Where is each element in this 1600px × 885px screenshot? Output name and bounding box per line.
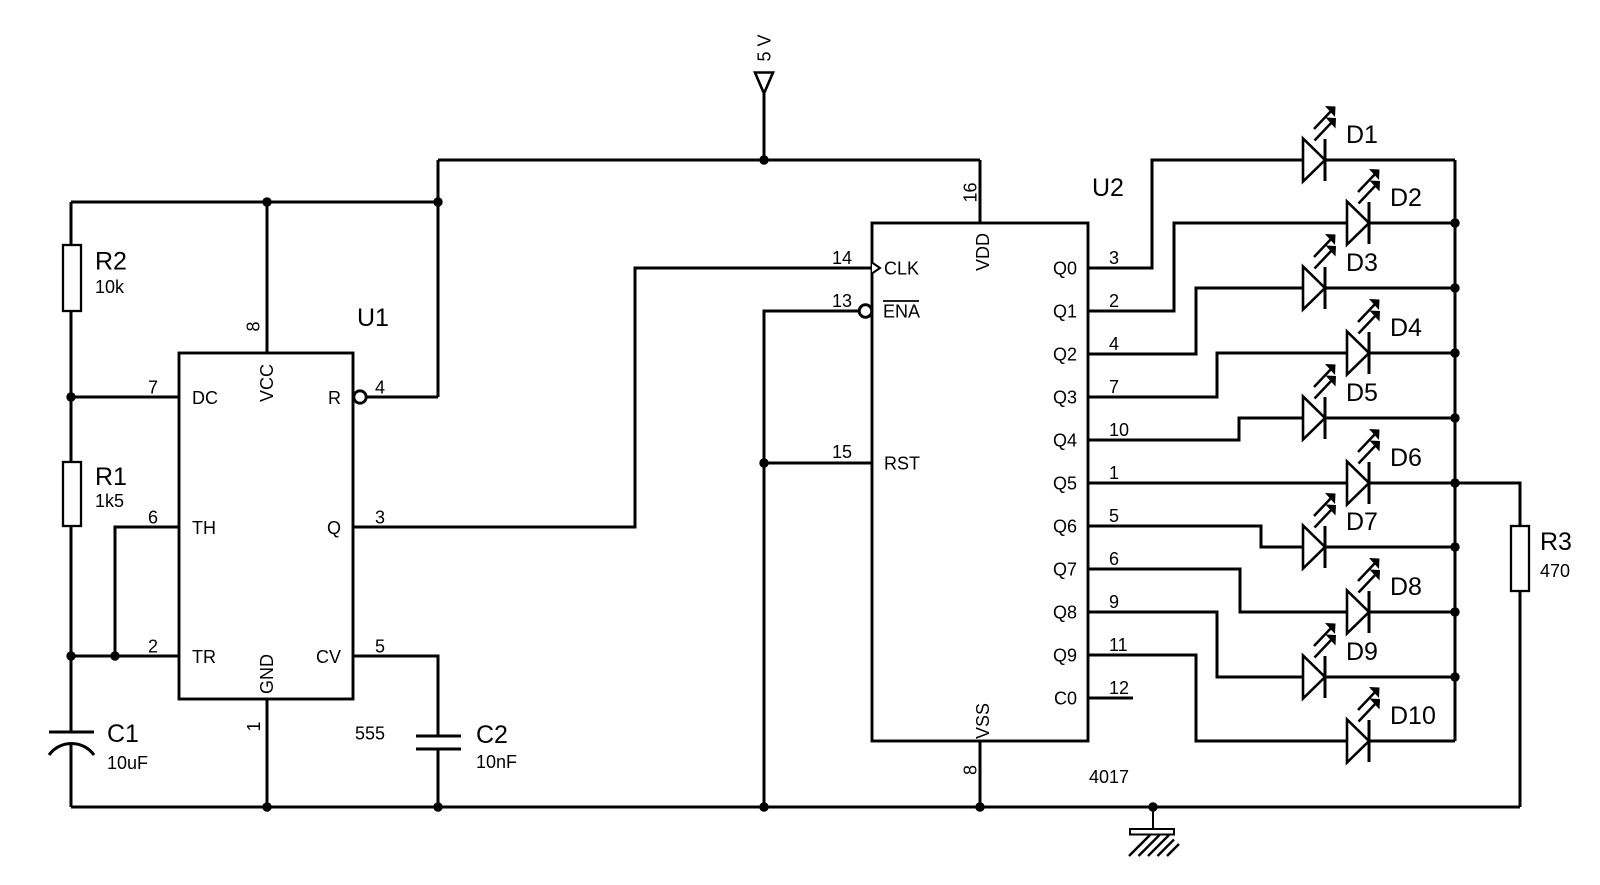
svg-text:R1: R1 — [95, 463, 127, 491]
wire R2 top lead — [70, 202, 73, 245]
wire D2 cathode to bus — [1369, 222, 1455, 225]
svg-text:13: 13 — [832, 291, 852, 311]
svg-text:D3: D3 — [1346, 249, 1378, 277]
wire D4 cathode to bus — [1369, 352, 1455, 355]
svg-text:5: 5 — [1109, 506, 1119, 526]
node earth junction — [1148, 802, 1157, 811]
svg-text:5 V: 5 V — [755, 34, 775, 61]
node VCC rail junction — [262, 197, 271, 206]
svg-text:DC: DC — [192, 388, 218, 408]
svg-text:D8: D8 — [1390, 573, 1422, 601]
wire Q8 to D9 anode — [1088, 612, 1303, 677]
svg-text:10: 10 — [1109, 420, 1129, 440]
wire U2 pin 16 VDD — [979, 160, 982, 223]
wire U1 pin 3 Q to U2 CLK — [353, 268, 872, 527]
svg-text:1: 1 — [1109, 463, 1119, 483]
svg-text:4017: 4017 — [1089, 767, 1129, 787]
svg-text:Q3: Q3 — [1053, 388, 1077, 408]
svg-text:7: 7 — [1109, 377, 1119, 397]
svg-text:3: 3 — [1109, 248, 1119, 268]
svg-text:R: R — [328, 388, 341, 408]
svg-text:2: 2 — [1109, 291, 1119, 311]
node bus D7 junction — [1450, 542, 1459, 551]
wire ground rail — [71, 806, 1520, 809]
svg-text:TR: TR — [192, 647, 216, 667]
svg-text:Q9: Q9 — [1053, 646, 1077, 666]
wire C1 to ground rail — [70, 745, 73, 807]
svg-text:D6: D6 — [1390, 444, 1422, 472]
svg-text:11: 11 — [1109, 635, 1128, 655]
svg-text:Q: Q — [327, 518, 341, 538]
node bus D9 junction — [1450, 672, 1459, 681]
svg-text:15: 15 — [832, 442, 852, 462]
svg-text:470: 470 — [1540, 561, 1570, 581]
svg-text:D10: D10 — [1390, 702, 1436, 730]
resistor R2 — [63, 245, 81, 311]
wire D8 cathode to bus — [1369, 611, 1455, 614]
node bus D2 junction — [1450, 218, 1459, 227]
svg-text:TH: TH — [192, 518, 216, 538]
wire C0 pin 12 stub — [1088, 697, 1133, 700]
node upper rail junction — [433, 197, 442, 206]
IC U1 555 timer body — [179, 353, 366, 699]
svg-text:2: 2 — [148, 637, 158, 657]
svg-text:D7: D7 — [1346, 508, 1378, 536]
LED D6 — [1347, 429, 1380, 505]
wire U1 pin 4 R — [366, 396, 438, 399]
node bus D5 junction — [1450, 413, 1459, 422]
svg-text:6: 6 — [1109, 549, 1119, 569]
node TR junction left — [66, 651, 75, 660]
LED D2 — [1347, 169, 1380, 245]
wire R2 to DC node — [70, 311, 73, 397]
node bus D6 junction — [1450, 478, 1459, 487]
svg-text:Q0: Q0 — [1053, 259, 1077, 279]
wire Q4 to D5 anode — [1088, 418, 1303, 440]
svg-text:D2: D2 — [1390, 184, 1422, 212]
wire C2 to ground rail — [437, 749, 440, 807]
wire D5 cathode to bus — [1325, 417, 1455, 420]
node VSS ground junction — [975, 802, 984, 811]
IC U2 4017 body — [859, 223, 1088, 741]
svg-text:1k5: 1k5 — [95, 491, 124, 511]
svg-text:16: 16 — [961, 182, 981, 202]
LED D5 — [1303, 364, 1336, 440]
svg-text:7: 7 — [148, 378, 158, 398]
svg-text:C1: C1 — [107, 720, 139, 748]
wire upper rail — [71, 201, 438, 204]
wire U1 pin 7 DC — [71, 396, 179, 399]
wire 5V rail — [438, 159, 980, 162]
resistor R3 — [1511, 526, 1529, 591]
wire rail to U1 pin 4 — [437, 160, 440, 397]
svg-text:8: 8 — [961, 765, 981, 775]
capacitor C1 polarized — [49, 732, 94, 755]
capacitor C2 — [416, 736, 461, 749]
svg-text:CV: CV — [316, 647, 341, 667]
node bus D8 junction — [1450, 607, 1459, 616]
svg-text:GND: GND — [257, 654, 277, 694]
node C2 ground junction — [433, 802, 442, 811]
wire D6 row to R3 — [1455, 483, 1520, 526]
resistor R1 — [63, 462, 81, 526]
wire D6 cathode to bus — [1369, 482, 1455, 485]
svg-text:Q4: Q4 — [1053, 431, 1077, 451]
svg-text:14: 14 — [832, 248, 852, 268]
svg-text:Q1: Q1 — [1053, 302, 1077, 322]
LED D3 — [1303, 234, 1336, 310]
svg-text:10k: 10k — [95, 277, 125, 297]
wire Q9 to D10 anode — [1088, 655, 1347, 741]
svg-text:VCC: VCC — [257, 364, 277, 402]
wire D7 cathode to bus — [1325, 546, 1455, 549]
svg-text:R2: R2 — [95, 248, 127, 276]
wire U2 pin 8 VSS — [979, 741, 982, 807]
svg-text:D1: D1 — [1346, 121, 1378, 149]
svg-text:6: 6 — [148, 508, 158, 528]
ground earth symbol — [1129, 807, 1179, 856]
wire Q0 to D1 anode — [1088, 160, 1303, 268]
LED D9 — [1303, 623, 1336, 699]
wire D1 cathode to bus — [1325, 159, 1455, 162]
node 5V rail junction — [759, 155, 768, 164]
node bus D3 junction — [1450, 283, 1459, 292]
wire U1 pin 6 TH — [115, 527, 179, 656]
svg-text:Q2: Q2 — [1053, 345, 1077, 365]
node DC junction — [66, 392, 75, 401]
wire D3 cathode to bus — [1325, 287, 1455, 290]
svg-text:ENA: ENA — [883, 302, 920, 322]
wire U1 pin 2 TR — [71, 655, 179, 658]
wire DC node to R1 — [70, 397, 73, 462]
node bus D4 junction — [1450, 348, 1459, 357]
svg-text:C2: C2 — [476, 721, 508, 749]
svg-text:Q6: Q6 — [1053, 517, 1077, 537]
wire Q3 to D4 anode — [1088, 353, 1347, 397]
svg-text:VSS: VSS — [973, 703, 993, 739]
svg-text:1: 1 — [244, 721, 264, 731]
svg-text:4: 4 — [375, 378, 385, 398]
wire U2 pin 13 ENA — [764, 311, 859, 807]
svg-text:VDD: VDD — [973, 233, 993, 271]
node ENA ground junction — [759, 802, 768, 811]
svg-text:R3: R3 — [1540, 528, 1572, 556]
svg-text:555: 555 — [355, 724, 385, 744]
wire D9 cathode to bus — [1325, 676, 1455, 679]
svg-text:10uF: 10uF — [107, 753, 148, 773]
svg-text:Q5: Q5 — [1053, 474, 1077, 494]
svg-text:3: 3 — [375, 508, 385, 528]
LED D8 — [1347, 558, 1380, 634]
svg-text:D5: D5 — [1346, 379, 1378, 407]
node TH-TR junction — [110, 651, 119, 660]
svg-text:8: 8 — [244, 321, 264, 331]
wire R1 to TR node — [70, 526, 73, 656]
svg-text:5: 5 — [375, 637, 385, 657]
wire TR node to C1 — [70, 656, 73, 732]
svg-text:CLK: CLK — [884, 259, 919, 279]
node GND pin1 junction — [262, 802, 271, 811]
wire Q5 to D6 anode — [1088, 482, 1347, 485]
svg-text:Q8: Q8 — [1053, 603, 1077, 623]
wire U1 pin 1 GND — [266, 699, 269, 807]
wire U1 pin 8 VCC — [266, 202, 269, 353]
wire Q2 to D3 anode — [1088, 288, 1303, 354]
svg-text:Q7: Q7 — [1053, 560, 1077, 580]
wire U2 pin 15 RST — [764, 462, 872, 465]
node ENA-RST junction — [759, 458, 768, 467]
LED D1 — [1303, 106, 1336, 182]
LED D4 — [1347, 299, 1380, 375]
svg-text:12: 12 — [1109, 678, 1129, 698]
svg-text:RST: RST — [884, 454, 920, 474]
wire LED cathode bus — [1454, 160, 1457, 741]
svg-text:10nF: 10nF — [476, 752, 517, 772]
svg-text:C0: C0 — [1054, 689, 1077, 709]
wire U1 pin 5 CV — [353, 656, 438, 736]
svg-text:U2: U2 — [1092, 174, 1124, 202]
svg-text:D9: D9 — [1346, 638, 1378, 666]
power 5V supply symbol — [755, 73, 773, 161]
wire D10 cathode to bus — [1369, 740, 1455, 743]
LED D7 — [1303, 493, 1336, 569]
wire Q7 to D8 anode — [1088, 569, 1347, 612]
wire Q6 to D7 anode — [1088, 526, 1303, 547]
svg-text:4: 4 — [1109, 334, 1119, 354]
svg-text:U1: U1 — [357, 304, 389, 332]
LED D10 — [1347, 687, 1380, 763]
wire R3 to ground rail — [1519, 591, 1522, 807]
svg-text:9: 9 — [1109, 592, 1119, 612]
svg-text:D4: D4 — [1390, 314, 1422, 342]
wire Q1 to D2 anode — [1088, 223, 1347, 311]
